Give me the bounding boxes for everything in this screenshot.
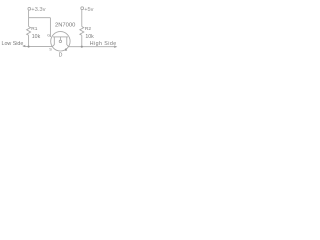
svg-text:+3.3v: +3.3v xyxy=(31,7,45,13)
wire R1 to low side xyxy=(28,35,30,46)
wire high side xyxy=(69,46,116,48)
resistor R1 xyxy=(27,27,31,36)
svg-text:R2: R2 xyxy=(85,26,91,32)
junction dot R2/high side xyxy=(81,46,83,48)
svg-text:2N7000: 2N7000 xyxy=(55,22,75,28)
svg-text:+5v: +5v xyxy=(84,7,93,13)
power +5v terminal xyxy=(81,7,84,10)
wire low side xyxy=(24,46,53,48)
junction dot R1/low side xyxy=(28,46,30,48)
svg-text:D: D xyxy=(59,52,63,58)
svg-text:G: G xyxy=(47,33,50,37)
transistor drain leg xyxy=(67,37,69,47)
svg-text:10k: 10k xyxy=(32,34,41,40)
svg-text:High Side: High Side xyxy=(90,41,117,47)
wire R2 to high side xyxy=(81,35,83,46)
arrowhead low side left xyxy=(22,45,25,48)
resistor R2 xyxy=(80,27,84,36)
transistor body leg xyxy=(59,37,61,40)
wire 3.3v rail vertical xyxy=(28,10,30,26)
transistor source leg xyxy=(52,37,54,47)
wire gate branch horizontal xyxy=(29,17,51,19)
wire 5v rail vertical xyxy=(81,10,83,27)
power +3.3v terminal xyxy=(28,7,31,10)
transistor channel bar xyxy=(53,36,68,38)
arrowhead high side right xyxy=(114,45,117,48)
svg-text:10k: 10k xyxy=(85,34,94,40)
wire gate drop vertical xyxy=(49,18,51,37)
transistor Q1 body circle xyxy=(51,32,70,51)
svg-text:Low Side: Low Side xyxy=(2,41,24,47)
svg-text:R1: R1 xyxy=(31,26,37,32)
transistor body loop xyxy=(59,40,61,42)
